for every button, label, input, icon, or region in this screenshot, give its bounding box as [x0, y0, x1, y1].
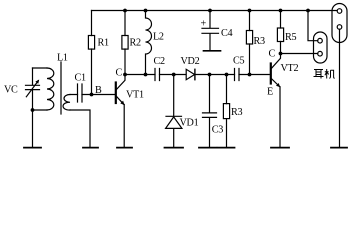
svg-text:VT2: VT2: [281, 63, 299, 74]
svg-text:R3: R3: [231, 107, 242, 118]
svg-text:VD2: VD2: [181, 56, 200, 67]
svg-text:R3: R3: [254, 36, 265, 47]
svg-text:B: B: [95, 85, 102, 96]
svg-text:C5: C5: [233, 56, 244, 67]
svg-text:R1: R1: [98, 38, 109, 49]
svg-text:C: C: [116, 68, 123, 79]
svg-text:R5: R5: [285, 32, 296, 43]
svg-text:E: E: [267, 87, 273, 98]
svg-text:C4: C4: [221, 28, 232, 39]
svg-text:VT1: VT1: [126, 90, 144, 101]
svg-text:L2: L2: [153, 32, 164, 43]
svg-text:VD1: VD1: [180, 118, 199, 129]
svg-text:+: +: [201, 19, 207, 30]
svg-text:C: C: [269, 49, 276, 60]
svg-text:C2: C2: [154, 56, 165, 67]
svg-text:VC: VC: [4, 85, 18, 96]
svg-text:L1: L1: [57, 53, 68, 64]
svg-text:R2: R2: [130, 38, 141, 49]
svg-text:C1: C1: [75, 73, 86, 84]
svg-text:C3: C3: [212, 125, 223, 136]
